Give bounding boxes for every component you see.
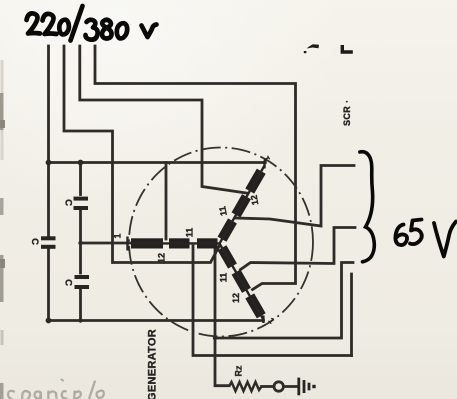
- svg-text:1: 1: [113, 233, 123, 238]
- winding bar A1: [131, 238, 163, 248]
- tap 11 upper wire to stub: [236, 166, 354, 227]
- phase-1 lead wire: [81, 242, 132, 245]
- winding bar C2: [232, 270, 251, 293]
- terminal tick 1: [126, 237, 128, 251]
- digit 6: [395, 225, 407, 246]
- resistor Rz output wire: [262, 385, 275, 388]
- terminal tick 1 (phase C): [262, 316, 264, 324]
- svg-text:12: 12: [249, 194, 261, 206]
- winding bar C3: [245, 293, 265, 318]
- winding phase A (horizontal branch): [113, 228, 220, 263]
- right riser wire from bottom run: [350, 274, 353, 356]
- terminal circle: [274, 382, 283, 391]
- wire L2 (neutral from bus to star point): [64, 46, 220, 263]
- winding bar C1: [218, 245, 237, 268]
- tap 11 lower wire to stub: [241, 228, 356, 270]
- handwriting 65 V: [395, 220, 456, 257]
- svg-text:C: C: [62, 199, 73, 206]
- svg-text:11: 11: [185, 228, 195, 238]
- digit 3: [86, 20, 98, 40]
- node rail-cap bottom: [78, 318, 82, 322]
- winding phase B (upper-right branch): [215, 163, 269, 246]
- bottom rail wire: [49, 319, 264, 322]
- handwriting 220/380 V: [27, 6, 157, 41]
- scan smudges left edge: [2, 60, 3, 399]
- stator boundary dash-dot circle: [129, 148, 313, 337]
- top rail wire: [49, 161, 266, 164]
- winding bar A3: [197, 238, 218, 248]
- letter V: [142, 25, 157, 38]
- svg-text:11: 11: [217, 205, 229, 216]
- winding phase C (lower-right branch): [215, 241, 268, 322]
- winding bar B3: [218, 218, 237, 241]
- capacitor C1: [41, 236, 56, 249]
- tap 11 drop wire: [193, 246, 352, 356]
- junction dots: [46, 160, 218, 341]
- digit 2: [27, 13, 41, 33]
- node cap-phase1: [78, 241, 82, 245]
- digit 2: [43, 14, 57, 34]
- resistor Rz zigzag: [229, 382, 262, 391]
- digit 5: [410, 220, 422, 245]
- cropped glyph wedge: [307, 44, 320, 48]
- svg-text:12: 12: [157, 253, 167, 263]
- handwriting brace: [360, 152, 375, 262]
- svg-text:C: C: [62, 279, 73, 286]
- digit 0: [117, 23, 127, 38]
- capacitor C3: [75, 275, 90, 289]
- wire bar gaps: [131, 242, 220, 244]
- winding bar B1: [245, 169, 265, 194]
- wire L1 (phase line from 220/380 bus): [47, 46, 50, 237]
- branch axis wire: [220, 244, 264, 320]
- node rail-L1 bottom: [46, 318, 52, 324]
- cropped glyph speck: [304, 51, 307, 53]
- svg-text:12: 12: [231, 293, 241, 303]
- wire L4 (to tap 12 of lower winding): [95, 46, 296, 290]
- node rail-L1 top: [46, 160, 52, 166]
- digit 8: [102, 20, 112, 39]
- cropped glyph L: [341, 45, 353, 54]
- winding bar B2: [232, 194, 251, 217]
- capacitor branch wire: [79, 163, 82, 195]
- tap 12 drop wire: [165, 163, 168, 240]
- svg-text:11: 11: [219, 273, 229, 283]
- svg-text:C: C: [29, 238, 40, 245]
- neutral down wire: [215, 246, 229, 386]
- digit 0: [59, 20, 69, 35]
- terminal tick 1 (phase B): [263, 161, 265, 169]
- capacitor C2: [74, 197, 89, 210]
- svg-text:Rz: Rz: [234, 365, 244, 376]
- svg-text:SCR ·: SCR ·: [342, 100, 352, 127]
- ground symbol: [299, 378, 314, 396]
- wire L3 (to tap 12 of upper winding): [80, 46, 247, 193]
- winding bar A2: [169, 238, 190, 248]
- svg-text:GENERATOR: GENERATOR: [147, 329, 159, 399]
- node neutral tap: [213, 336, 217, 340]
- neutral tap wire to right stub: [215, 263, 353, 339]
- letter V: [434, 222, 456, 257]
- pencil scribble: [8, 380, 104, 399]
- node rail-cap top: [78, 160, 84, 166]
- slash: [71, 6, 83, 41]
- branch axis wire: [220, 166, 265, 244]
